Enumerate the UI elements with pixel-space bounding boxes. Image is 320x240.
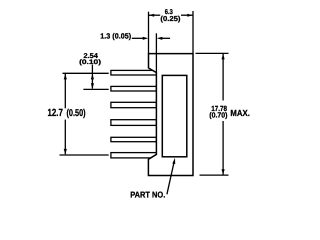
svg-text:(0.50): (0.50)	[67, 108, 86, 119]
PART NO. leader line with arrow	[167, 162, 174, 195]
17.78 dimension line upper segment with up arrow	[222, 54, 224, 101]
17.78 dimension line lower segment with down arrow	[222, 121, 224, 175]
svg-text:(0.70): (0.70)	[209, 110, 228, 119]
pin 1 centerline extension line	[63, 72, 109, 74]
svg-text:MAX.: MAX.	[230, 108, 250, 118]
2.54 dimension line with arrows	[91, 65, 93, 89]
pin 2 centerline extension line	[83, 88, 108, 90]
svg-text:1.3 (0.05): 1.3 (0.05)	[100, 31, 131, 40]
internal edge / 1.3 extension line (front wall)	[155, 33, 157, 72]
pin 1	[111, 70, 156, 75]
connector body outline (side view with chamfered front)	[148, 54, 193, 176]
part number recess rectangle	[162, 75, 187, 156]
pin 2	[111, 86, 156, 91]
svg-text:(0.25): (0.25)	[160, 14, 181, 23]
1.3 dimension left-pointing arrow with tail	[157, 37, 163, 40]
6.3 dimension line right arrow	[181, 14, 193, 16]
17.78 dimension: bottom extension line	[200, 174, 229, 176]
6.3 dimension: left extension line	[148, 12, 150, 54]
1.3 dimension leader with right-pointing arrow	[132, 37, 144, 39]
pin 5	[111, 137, 156, 141]
svg-text:(0.10): (0.10)	[79, 59, 101, 66]
pin 3	[111, 102, 156, 107]
17.78 dimension: top extension line	[196, 52, 229, 54]
12.7 dimension line upper segment with up arrow	[64, 74, 66, 108]
6.3 dimension line left arrow	[149, 14, 160, 16]
svg-text:PART NO.: PART NO.	[130, 190, 165, 200]
6.3 dimension: right extension line	[192, 11, 194, 54]
svg-text:12.7: 12.7	[48, 108, 64, 119]
pin 4	[111, 120, 156, 126]
12.7 dimension line lower segment with down arrow	[64, 120, 66, 155]
pin 6	[111, 153, 156, 158]
pin 6 centerline extension line	[60, 154, 109, 156]
